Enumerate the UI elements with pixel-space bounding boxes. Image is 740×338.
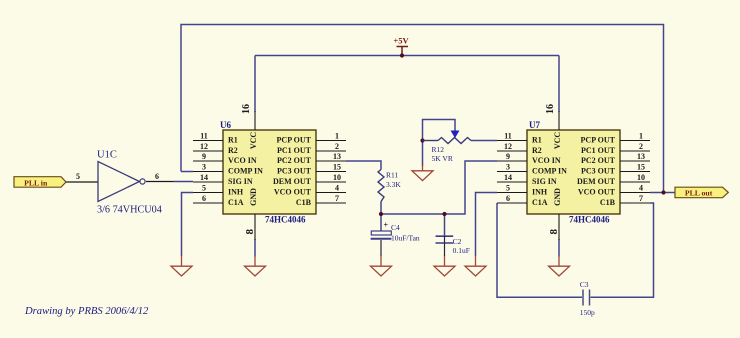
- svg-text:VCC: VCC: [249, 132, 258, 150]
- svg-text:13: 13: [333, 152, 341, 161]
- svg-text:5: 5: [506, 184, 510, 193]
- svg-text:11: 11: [504, 132, 512, 141]
- svg-text:PLL out: PLL out: [685, 188, 713, 197]
- svg-text:1: 1: [639, 132, 643, 141]
- svg-text:GND: GND: [553, 188, 562, 206]
- svg-text:10uF/Tan: 10uF/Tan: [391, 234, 420, 243]
- svg-text:12: 12: [504, 142, 512, 151]
- svg-text:150p: 150p: [580, 308, 595, 317]
- svg-text:U7: U7: [529, 120, 540, 130]
- svg-text:VCO IN: VCO IN: [532, 156, 561, 165]
- svg-text:PC1 OUT: PC1 OUT: [581, 146, 616, 155]
- svg-text:R2: R2: [228, 146, 238, 155]
- svg-text:2: 2: [335, 142, 339, 151]
- svg-text:VCO IN: VCO IN: [228, 156, 257, 165]
- svg-text:15: 15: [637, 163, 645, 172]
- svg-text:15: 15: [333, 163, 341, 172]
- svg-text:16: 16: [545, 104, 556, 114]
- svg-text:6: 6: [155, 172, 159, 181]
- svg-text:+5V: +5V: [393, 36, 409, 46]
- svg-text:C1B: C1B: [296, 198, 312, 207]
- svg-text:PC3 OUT: PC3 OUT: [277, 167, 312, 176]
- svg-text:PC3 OUT: PC3 OUT: [581, 167, 616, 176]
- svg-text:16: 16: [241, 104, 252, 114]
- svg-text:C2: C2: [453, 237, 462, 246]
- svg-text:INH: INH: [532, 188, 548, 197]
- svg-text:10: 10: [333, 173, 341, 182]
- svg-text:10: 10: [637, 173, 645, 182]
- svg-text:1: 1: [335, 132, 339, 141]
- svg-text:COMP IN: COMP IN: [228, 167, 263, 176]
- svg-text:PC2 OUT: PC2 OUT: [581, 156, 616, 165]
- svg-text:Drawing by PRBS 2006/4/12: Drawing by PRBS 2006/4/12: [24, 306, 149, 317]
- svg-text:3.3K: 3.3K: [386, 180, 401, 189]
- svg-text:C3: C3: [580, 280, 589, 289]
- svg-text:74HC4046: 74HC4046: [265, 215, 306, 225]
- svg-text:PLL in: PLL in: [24, 178, 48, 187]
- svg-text:13: 13: [637, 152, 645, 161]
- svg-text:C1A: C1A: [228, 198, 244, 207]
- svg-text:5: 5: [202, 184, 206, 193]
- svg-text:9: 9: [506, 152, 510, 161]
- svg-text:+: +: [384, 221, 389, 230]
- svg-text:4: 4: [335, 184, 339, 193]
- svg-text:INH: INH: [228, 188, 244, 197]
- svg-text:PC2 OUT: PC2 OUT: [277, 156, 312, 165]
- svg-text:R12: R12: [432, 145, 445, 154]
- svg-text:4: 4: [639, 184, 643, 193]
- svg-text:VCC: VCC: [553, 132, 562, 150]
- svg-text:C1B: C1B: [600, 198, 616, 207]
- svg-text:SIG IN: SIG IN: [228, 177, 253, 186]
- svg-text:GND: GND: [249, 188, 258, 206]
- svg-text:6: 6: [202, 194, 206, 203]
- svg-text:U1C: U1C: [97, 150, 117, 161]
- svg-text:8: 8: [244, 228, 256, 234]
- svg-text:7: 7: [335, 194, 339, 203]
- svg-text:5: 5: [76, 172, 80, 181]
- svg-text:R11: R11: [386, 171, 398, 180]
- svg-text:11: 11: [200, 132, 208, 141]
- svg-text:VCO OUT: VCO OUT: [274, 188, 312, 197]
- svg-text:VCO OUT: VCO OUT: [578, 188, 616, 197]
- svg-text:PCP OUT: PCP OUT: [581, 136, 616, 145]
- svg-text:DEM OUT: DEM OUT: [273, 177, 312, 186]
- svg-text:5K VR: 5K VR: [432, 154, 453, 163]
- svg-text:SIG IN: SIG IN: [532, 177, 557, 186]
- svg-text:8: 8: [548, 228, 560, 234]
- svg-text:12: 12: [200, 142, 208, 151]
- svg-text:6: 6: [506, 194, 510, 203]
- svg-text:R1: R1: [532, 136, 542, 145]
- svg-text:7: 7: [639, 194, 643, 203]
- svg-text:R1: R1: [228, 136, 238, 145]
- svg-text:COMP IN: COMP IN: [532, 167, 567, 176]
- svg-text:U6: U6: [220, 120, 231, 130]
- svg-text:14: 14: [200, 173, 208, 182]
- svg-text:R2: R2: [532, 146, 542, 155]
- svg-text:0.1uF: 0.1uF: [453, 246, 470, 255]
- svg-text:9: 9: [202, 152, 206, 161]
- svg-text:PC1 OUT: PC1 OUT: [277, 146, 312, 155]
- svg-text:PCP OUT: PCP OUT: [277, 136, 312, 145]
- svg-text:74HC4046: 74HC4046: [569, 215, 610, 225]
- svg-text:3: 3: [202, 163, 206, 172]
- svg-text:14: 14: [504, 173, 512, 182]
- svg-text:DEM OUT: DEM OUT: [577, 177, 616, 186]
- svg-text:2: 2: [639, 142, 643, 151]
- svg-text:3: 3: [506, 163, 510, 172]
- svg-text:C4: C4: [391, 223, 400, 232]
- svg-text:C1A: C1A: [532, 198, 548, 207]
- svg-text:3/6 74VHCU04: 3/6 74VHCU04: [97, 205, 162, 216]
